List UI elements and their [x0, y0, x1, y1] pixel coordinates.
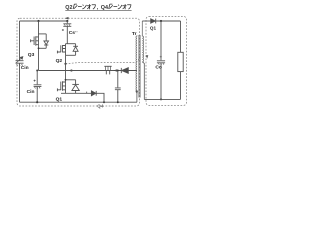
secondary bottom rail	[144, 98, 180, 100]
arrow on primary bottom	[136, 91, 138, 95]
diode D4 in Q4 source path	[91, 91, 104, 102]
svg-text:Cs: Cs	[69, 30, 76, 36]
body diode of Q3 (points down)	[44, 34, 49, 48]
svg-text:Q1: Q1	[56, 96, 63, 102]
transistor Q4	[57, 80, 91, 94]
svg-text:Co: Co	[155, 65, 162, 71]
leg wire Q2 source to Q4 drain	[65, 55, 67, 80]
title katakana strokes	[73, 4, 131, 9]
svg-text:Cin: Cin	[21, 65, 29, 71]
left arrow on wire B	[68, 69, 72, 71]
node dot Cs junction on top rail	[66, 20, 68, 22]
primary side dashed current loop box	[17, 18, 140, 106]
capacitor Cr	[115, 71, 121, 103]
bottom rail wire	[20, 101, 138, 103]
dash marks right of Cs	[75, 31, 77, 32]
node dot Q4 drain	[65, 79, 67, 81]
svg-text:Q1: Q1	[150, 25, 157, 30]
node dot D4 to bottom rail	[103, 101, 105, 103]
junction tick on Q4 source wire	[86, 92, 88, 94]
node dot Co bottom	[160, 98, 162, 100]
diode D3 on wire B pointing left	[121, 68, 128, 74]
secondary top wire to D1	[142, 20, 150, 22]
transformer Tr primary winding	[135, 35, 138, 92]
current arrow at Cin	[16, 57, 23, 64]
svg-text:Tr: Tr	[132, 31, 137, 37]
capacitor Co	[157, 21, 165, 99]
arrow on secondary dashed edge	[146, 55, 148, 59]
node dot Co top	[160, 20, 162, 22]
arrow on top dashed edge	[65, 17, 69, 20]
top rail wire	[20, 20, 68, 22]
svg-text:Q2: Q2	[56, 58, 63, 64]
svg-text:Q3: Q3	[28, 52, 35, 58]
left rail wire	[19, 21, 21, 102]
plus mark at Cs	[62, 29, 64, 31]
node dot Cin2 top junction	[36, 70, 38, 72]
load resistor	[178, 21, 183, 99]
node dot Cr top	[117, 70, 119, 72]
plus mark at Co	[160, 56, 162, 58]
current transformer CT	[104, 66, 111, 74]
svg-text:Cin: Cin	[27, 89, 35, 95]
secondary top rail	[156, 20, 181, 22]
title Q2 turn-off Q4 turn-off	[65, 5, 108, 11]
inner dashed current path to transformer	[66, 56, 140, 64]
diode D1	[151, 19, 156, 24]
wire B midpoint to transformer	[39, 70, 138, 72]
capacitor Cs	[63, 21, 71, 44]
title underline	[65, 10, 131, 12]
transistor Q3	[31, 21, 47, 71]
capacitor Cin (left input)	[16, 61, 24, 66]
node dot Cr bottom	[117, 101, 119, 103]
body diode of Q4	[72, 80, 79, 94]
node dot bridge midpoint	[64, 63, 66, 65]
transformer secondary winding	[142, 21, 143, 62]
node dot Q3 drain on top rail	[37, 20, 39, 22]
svg-text:Q4: Q4	[97, 104, 104, 109]
capacitor Cin2 (lower)	[34, 71, 42, 103]
node dot Cin2 bottom	[36, 101, 38, 103]
transformer core	[139, 35, 140, 98]
transistor Q2	[57, 44, 75, 56]
arrow on wire B near diode	[113, 69, 117, 71]
plus mark at Cin2	[34, 80, 36, 82]
secondary side dashed current loop box	[146, 16, 187, 105]
body diode of Q2	[73, 44, 78, 56]
secondary lower wire	[142, 62, 144, 100]
primary bottom connection	[136, 92, 138, 102]
node dot Q3 source	[38, 47, 40, 49]
